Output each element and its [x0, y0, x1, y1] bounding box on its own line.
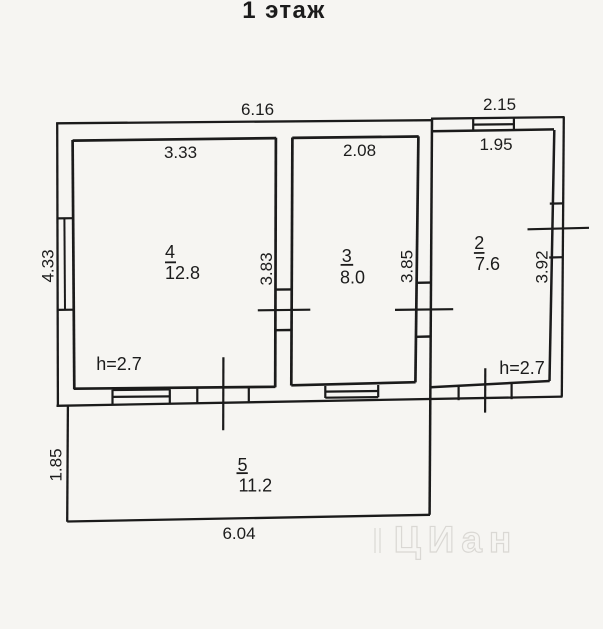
svg-text:1 этаж: 1 этаж — [242, 0, 325, 24]
svg-text:4.33: 4.33 — [39, 249, 58, 282]
svg-text:3.33: 3.33 — [164, 143, 197, 162]
svg-text:8.0: 8.0 — [340, 268, 365, 288]
svg-text:ЦИан: ЦИан — [394, 519, 519, 560]
svg-text:2: 2 — [474, 233, 484, 253]
svg-text:6.16: 6.16 — [241, 100, 274, 119]
svg-text:h=2.7: h=2.7 — [499, 358, 545, 378]
svg-text:2.08: 2.08 — [343, 141, 376, 160]
svg-text:1.95: 1.95 — [479, 135, 512, 154]
svg-text:6.04: 6.04 — [222, 524, 255, 543]
svg-text:h=2.7: h=2.7 — [96, 354, 142, 374]
svg-text:4: 4 — [165, 242, 175, 262]
svg-text:3.85: 3.85 — [398, 250, 417, 283]
svg-text:12.8: 12.8 — [165, 263, 200, 283]
svg-text:1.85: 1.85 — [47, 448, 66, 481]
svg-text:7.6: 7.6 — [475, 254, 500, 274]
svg-text:5: 5 — [237, 455, 247, 475]
svg-text:3.92: 3.92 — [533, 250, 552, 283]
svg-text:3: 3 — [342, 246, 352, 266]
svg-text:11.2: 11.2 — [239, 476, 273, 496]
svg-text:2.15: 2.15 — [483, 95, 516, 114]
svg-text:3.83: 3.83 — [257, 252, 276, 285]
